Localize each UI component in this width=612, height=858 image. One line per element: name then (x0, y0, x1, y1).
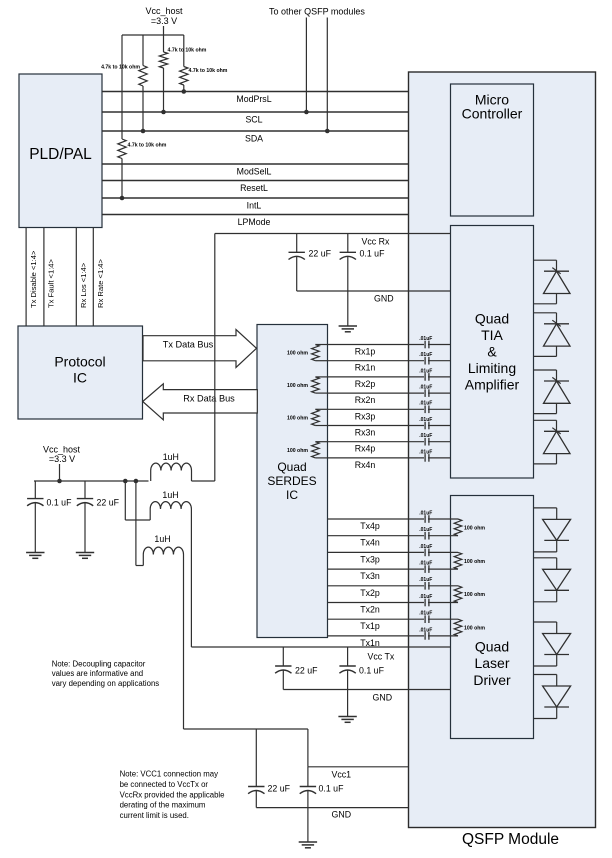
photodiode D3 (534, 370, 571, 414)
wire Tx3n (328, 569, 459, 581)
inductor L3 1uH (143, 534, 183, 566)
svg-text:IntL: IntL (247, 201, 262, 211)
svg-text:100 ohm: 100 ohm (464, 525, 485, 531)
wire Tx4p (328, 519, 459, 531)
svg-text:.01uF: .01uF (419, 401, 432, 407)
svg-text:.01uF: .01uF (419, 594, 432, 600)
wire ResetL (102, 181, 409, 194)
capacitor .01uF on Rx4n (419, 449, 432, 461)
wire Rx Rate <1:4> (93, 228, 105, 327)
svg-text:0.1 uF: 0.1 uF (360, 249, 386, 259)
svg-text:Rx Los <1:4>: Rx Los <1:4> (79, 262, 88, 308)
svg-text:Vcc Tx: Vcc Tx (368, 652, 395, 662)
svg-text:.01uF: .01uF (419, 433, 432, 439)
svg-text:100 ohm: 100 ohm (287, 415, 308, 421)
svg-text:.01uF: .01uF (419, 336, 432, 342)
wire Rx2p (328, 377, 451, 389)
laser diode D6 (534, 558, 571, 602)
capacitor .01uF on Tx3n (419, 561, 432, 573)
capacitor C1 0.1uF host (27, 481, 72, 552)
node junction R3-ModPrsL (182, 89, 187, 94)
svg-text:.01uF: .01uF (419, 510, 432, 516)
wire Tx Fault <1:4> (44, 228, 55, 327)
svg-text:Rx4p: Rx4p (355, 444, 376, 454)
svg-text:Tx3n: Tx3n (360, 571, 380, 581)
inductor L2 1uH (150, 490, 191, 520)
wire Tx4n (328, 536, 459, 548)
node junction rail-L3 (134, 479, 139, 484)
svg-text:Tx Data Bus: Tx Data Bus (163, 340, 214, 350)
wire LPMode (102, 215, 409, 228)
resistor RT6 100 ohm Tx3 termination (454, 552, 485, 569)
capacitor .01uF on Rx3n (419, 417, 432, 429)
capacitor C6 0.1uF VccTx (339, 647, 384, 690)
label Vcc Rx (362, 237, 390, 247)
svg-text:Rx1n: Rx1n (355, 363, 376, 373)
capacitor .01uF on Rx1n (419, 352, 432, 364)
wire rail to R2 (163, 35, 165, 52)
svg-text:22 uF: 22 uF (309, 249, 332, 259)
svg-text:Quad: Quad (277, 460, 306, 474)
wire ModPrsL (102, 92, 409, 105)
svg-text:TIA: TIA (481, 327, 503, 343)
capacitor C8 0.1uF Vcc1 (300, 767, 344, 808)
svg-text:4.7k to 10k ohm: 4.7k to 10k ohm (189, 68, 228, 74)
wire Tx2p (328, 586, 459, 598)
svg-text:=3.3 V: =3.3 V (49, 454, 75, 464)
wire GND drop to ground (Vcc1) (307, 808, 309, 842)
svg-text:Amplifier: Amplifier (465, 377, 520, 393)
wire R1 to SDA (142, 86, 144, 131)
capacitor .01uF on Rx2p (419, 368, 432, 380)
wire Tx2n (328, 603, 459, 615)
node junction R4-IntL (120, 196, 125, 201)
svg-text:Laser: Laser (474, 655, 509, 671)
wire ModSelL (102, 164, 409, 177)
label GND (Vcc1) (332, 810, 352, 820)
svg-text:GND: GND (373, 693, 393, 703)
label Vcc Tx (368, 652, 395, 662)
wire Tx3p (328, 552, 459, 564)
wire rail drop to L2 (125, 481, 150, 520)
svg-text:Tx Disable <1:4>: Tx Disable <1:4> (29, 250, 38, 308)
capacitor C7 22uF Vcc1 (248, 729, 291, 808)
wire L3 to Vcc1 drop (183, 555, 185, 730)
svg-text:.01uF: .01uF (419, 577, 432, 583)
svg-text:0.1 uF: 0.1 uF (359, 666, 385, 676)
svg-text:.01uF: .01uF (419, 611, 432, 617)
PLD/PAL block U1 (19, 74, 102, 228)
label Vcc1 (332, 770, 352, 780)
svg-text:Tx2p: Tx2p (360, 588, 380, 598)
node junction otherQSFP-SDA (325, 129, 330, 134)
wire VccRx feed vertical (214, 234, 216, 482)
wire rail to R1 (142, 35, 144, 66)
resistor RT8 100 ohm Tx1 termination (454, 619, 485, 636)
svg-text:.01uF: .01uF (419, 544, 432, 550)
svg-text:.01uF: .01uF (419, 561, 432, 567)
svg-text:22 uF: 22 uF (295, 666, 318, 676)
wire rail to R3 (183, 35, 185, 67)
wire Rx4p (328, 442, 451, 454)
protocol IC U2 (18, 326, 143, 419)
capacitor C4 0.1uF VccRx (340, 234, 385, 292)
svg-text:Tx1p: Tx1p (360, 621, 380, 631)
wire lower supply rail (34, 480, 149, 482)
wire rail to R4 (121, 35, 123, 139)
svg-text:.01uF: .01uF (419, 368, 432, 374)
svg-text:0.1 uF: 0.1 uF (319, 784, 345, 794)
wire R4 to IntL (121, 159, 123, 199)
resistor RT5 100 ohm Tx4 termination (454, 519, 485, 536)
Rx Data Bus arrow (143, 384, 258, 420)
resistor R4 4.7k to 10k ohm (118, 139, 167, 159)
svg-text:To other QSFP modules: To other QSFP modules (269, 7, 365, 17)
wire Vcc1 drop (307, 729, 309, 767)
wire R3 to ModPrsL (183, 85, 185, 92)
wire pull-up rail (122, 34, 184, 36)
svg-text:Controller: Controller (462, 106, 523, 122)
svg-text:Tx Fault <1:4>: Tx Fault <1:4> (46, 258, 55, 308)
svg-text:QSFP Module: QSFP Module (462, 831, 559, 848)
svg-text:0.1 uF: 0.1 uF (47, 498, 73, 508)
capacitor .01uF on Tx4n (419, 527, 432, 539)
wire Vcc1 GND rail (256, 807, 408, 809)
wire Vcc1 rail (308, 766, 409, 768)
svg-text:1uH: 1uH (163, 452, 179, 462)
ground (VccRx) (339, 326, 357, 332)
capacitor C5 22uF VccTx (275, 647, 318, 690)
svg-text:Tx2n: Tx2n (360, 605, 380, 615)
wire GND drop to ground (VccTx) (347, 690, 349, 717)
node junction otherQSFP-SCL (304, 110, 309, 115)
capacitor C2 22uF host (77, 481, 120, 552)
svg-text:PLD/PAL: PLD/PAL (29, 146, 92, 163)
wire Rx2n (328, 393, 451, 405)
wire Vcc_host lead (top) (163, 26, 165, 35)
svg-text:.01uF: .01uF (419, 417, 432, 423)
svg-text:Tx4n: Tx4n (360, 538, 380, 548)
resistor RT4 100 ohm Rx4 termination (287, 442, 328, 458)
quad TIA and limiting amplifier U5 (451, 226, 534, 479)
svg-text:Vcc1: Vcc1 (332, 770, 352, 780)
svg-text:ModPrsL: ModPrsL (236, 94, 271, 104)
wire GND drop to ground (VccRx) (347, 291, 349, 326)
svg-text:100 ohm: 100 ohm (287, 448, 308, 454)
resistor R3 4.7k to 10k ohm (180, 67, 228, 86)
note decoupling capacitors (52, 660, 160, 688)
wire Rx3n (328, 426, 451, 438)
ground (host C2) (76, 553, 94, 559)
svg-text:Rx2n: Rx2n (355, 395, 376, 405)
capacitor .01uF on Rx1p (419, 336, 432, 348)
svg-text:Limiting: Limiting (468, 360, 516, 376)
wire VccTx rail (191, 646, 450, 648)
wire IntL (102, 198, 409, 211)
svg-text:Tx3p: Tx3p (360, 554, 380, 564)
quad laser driver U6 (451, 496, 534, 739)
quad SERDES IC U3 (257, 325, 328, 638)
resistor RT1 100 ohm Rx1 termination (287, 345, 328, 361)
wire Rx4n (328, 458, 451, 470)
laser diode D5 (534, 508, 571, 552)
svg-text:SERDES: SERDES (267, 474, 316, 488)
photodiode D2 (534, 313, 571, 357)
svg-text:4.7k to 10k ohm: 4.7k to 10k ohm (168, 48, 207, 54)
svg-text:Rx4n: Rx4n (355, 460, 376, 470)
svg-text:Protocol: Protocol (54, 353, 105, 369)
svg-text:Quad: Quad (475, 310, 509, 326)
wire Vcc_host lead (lower) (59, 464, 61, 481)
svg-text:ResetL: ResetL (240, 183, 268, 193)
svg-text:Rx Rate <1:4>: Rx Rate <1:4> (96, 258, 105, 308)
wire Tx1p (328, 619, 459, 631)
capacitor .01uF on Rx2n (419, 385, 432, 397)
svg-text:ModSelL: ModSelL (237, 167, 272, 177)
svg-text:100 ohm: 100 ohm (464, 559, 485, 565)
svg-text:100 ohm: 100 ohm (464, 592, 485, 598)
svg-text:Rx Data Bus: Rx Data Bus (183, 394, 235, 404)
capacitor C3 22uF VccRx (289, 234, 332, 292)
svg-text:IC: IC (286, 488, 298, 502)
ground (host C1) (26, 553, 44, 559)
svg-text:Vcc Rx: Vcc Rx (362, 237, 390, 247)
svg-text:Vcc_host: Vcc_host (145, 6, 183, 16)
micro controller U4 (451, 84, 534, 216)
ground (VccTx) (338, 717, 356, 723)
wire Rx3p (328, 409, 451, 421)
wire rail drop to L3 (136, 481, 143, 566)
svg-text:GND: GND (332, 810, 352, 820)
wire VccTx GND rail (283, 689, 450, 691)
svg-text:.01uF: .01uF (419, 449, 432, 455)
label GND (VccRx) (374, 294, 394, 304)
resistor RT3 100 ohm Rx3 termination (287, 409, 328, 425)
note VCC1 connection (120, 770, 225, 821)
svg-text:.01uF: .01uF (419, 385, 432, 391)
wire Tx1n (328, 636, 459, 648)
wire Rx1n (328, 361, 451, 373)
wire to other modules SCL drop (305, 18, 307, 113)
svg-text:.01uF: .01uF (419, 352, 432, 358)
svg-text:Rx1p: Rx1p (355, 347, 376, 357)
capacitor .01uF on Rx3p (419, 401, 432, 413)
svg-text:Rx3p: Rx3p (355, 411, 376, 421)
svg-text:SDA: SDA (245, 134, 263, 144)
node junction R2-SCL (161, 110, 166, 115)
svg-text:LPMode: LPMode (238, 217, 271, 227)
svg-text:1uH: 1uH (154, 534, 170, 544)
svg-text:Tx4p: Tx4p (360, 521, 380, 531)
svg-text:22 uF: 22 uF (268, 784, 291, 794)
wire to other modules SDA drop (326, 18, 328, 132)
node junction R1-SDA (141, 129, 146, 134)
svg-text:4.7k to 10k ohm: 4.7k to 10k ohm (128, 143, 167, 149)
label To other QSFP modules (269, 7, 365, 17)
label Vcc_host (lower) (43, 445, 81, 465)
svg-text:100 ohm: 100 ohm (287, 351, 308, 357)
resistor R2 4.7k to 10k ohm (159, 48, 207, 69)
wire VccRx rail (215, 233, 451, 235)
svg-text:22 uF: 22 uF (97, 498, 120, 508)
wire VccRx GND rail (297, 290, 451, 292)
wire L2 to VccTx drop (190, 509, 192, 647)
node junction Vcc_host-rail (57, 479, 62, 484)
inductor L1 1uH (151, 452, 192, 481)
capacitor .01uF on Rx4p (419, 433, 432, 445)
resistor RT2 100 ohm Rx2 termination (287, 377, 328, 393)
laser diode D8 (534, 675, 571, 719)
capacitor .01uF on Tx2p (419, 577, 432, 589)
label Vcc_host (top) (145, 6, 183, 26)
svg-text:.01uF: .01uF (419, 627, 432, 633)
svg-text:Driver: Driver (473, 672, 511, 688)
photodiode D1 (534, 260, 571, 304)
svg-text:&: & (487, 344, 497, 360)
svg-text:Quad: Quad (475, 638, 509, 654)
svg-text:4.7k to 10k ohm: 4.7k to 10k ohm (101, 64, 140, 70)
resistor RT7 100 ohm Tx2 termination (454, 586, 485, 603)
capacitor .01uF on Tx1p (419, 611, 432, 623)
wire L1 to VccRx riser (192, 480, 215, 482)
laser diode D7 (534, 622, 571, 666)
capacitor .01uF on Tx3p (419, 544, 432, 556)
svg-text:Rx3n: Rx3n (355, 428, 376, 438)
svg-text:100 ohm: 100 ohm (464, 626, 485, 632)
node junction rail-L2 (123, 479, 128, 484)
label GND (VccTx) (373, 693, 393, 703)
photodiode D4 (534, 420, 571, 464)
svg-text:GND: GND (374, 294, 394, 304)
wire Rx Los <1:4> (76, 228, 88, 327)
wire Rx1p (328, 345, 451, 357)
svg-text:1uH: 1uH (162, 490, 178, 500)
resistor R1 4.7k to 10k ohm (101, 64, 147, 86)
svg-text:.01uF: .01uF (419, 527, 432, 533)
ground (Vcc1) (299, 842, 317, 848)
capacitor .01uF on Tx1n (419, 627, 432, 639)
Tx Data Bus arrow (143, 330, 257, 368)
svg-text:Rx2p: Rx2p (355, 379, 376, 389)
svg-text:=3.3 V: =3.3 V (151, 16, 177, 26)
wire SDA (102, 131, 409, 144)
wire R2 to SCL (163, 68, 165, 112)
QSFP Module block outline U7 (409, 72, 596, 848)
svg-text:IC: IC (73, 369, 87, 385)
wire Tx Disable <1:4> (26, 228, 38, 327)
capacitor .01uF on Tx4p (419, 510, 432, 522)
svg-text:SCL: SCL (245, 115, 262, 125)
wire Vcc1 horizontal from L3 (184, 728, 308, 730)
svg-text:Vcc_host: Vcc_host (43, 445, 81, 455)
wire SCL (102, 112, 409, 125)
svg-text:100 ohm: 100 ohm (287, 383, 308, 389)
capacitor .01uF on Tx2n (419, 594, 432, 606)
